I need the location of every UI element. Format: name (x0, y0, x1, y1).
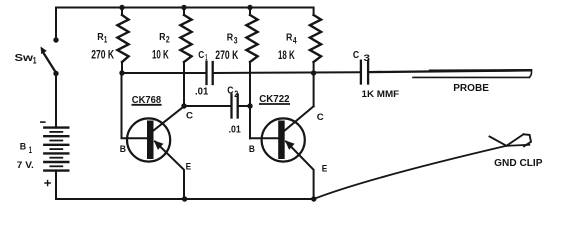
svg-text:3: 3 (364, 53, 371, 64)
svg-text:4: 4 (293, 36, 297, 46)
node: R1 bottom junction (119, 70, 124, 75)
node: Q1 collector junction (181, 103, 186, 108)
wire Q2 base lead (250, 137, 279, 139)
wire switch-to-battery lead (55, 74, 57, 128)
svg-text:1: 1 (104, 35, 107, 45)
wire battery-to-bottom-rail lead (55, 171, 57, 199)
resistor R4 (310, 15, 321, 106)
node: R2 top junction (181, 5, 186, 10)
node: Q2 base / C2 / R3 junction (247, 103, 252, 108)
node: Q1 emitter on bottom rail (182, 196, 187, 201)
svg-text:C: C (227, 85, 234, 97)
capacitor C1 (207, 62, 213, 84)
transistor Q1 CK768 (127, 106, 184, 199)
node: R3 top junction (247, 5, 252, 10)
svg-text:B: B (249, 144, 255, 155)
svg-text:E: E (322, 163, 328, 174)
svg-text:2: 2 (166, 35, 170, 45)
node: R1 top junction (119, 5, 124, 10)
battery plus sign (45, 180, 50, 185)
svg-text:C: C (198, 50, 204, 61)
resistor R1 (117, 8, 128, 74)
svg-text:3: 3 (234, 36, 238, 46)
node: switch bottom terminal (53, 71, 58, 76)
wire top rail (56, 8, 314, 42)
svg-text:GND CLIP: GND CLIP (494, 158, 543, 169)
svg-text:270 K: 270 K (91, 48, 114, 62)
wire bottom rail (56, 198, 314, 200)
svg-text:2: 2 (234, 89, 238, 99)
svg-text:.01: .01 (195, 85, 208, 97)
ground clip head (524, 134, 532, 146)
ground clip jaws (490, 134, 524, 146)
resistor R2 (180, 8, 191, 107)
svg-text:E: E (186, 161, 192, 172)
svg-text:18 K: 18 K (278, 48, 295, 62)
wire C2 to Q2 base node (239, 105, 250, 107)
node: R4 bottom / output junction (311, 70, 316, 75)
svg-text:1: 1 (33, 56, 37, 66)
svg-text:B: B (20, 142, 27, 153)
capacitor C2 (232, 95, 238, 118)
transistor Q2 CK722 (262, 106, 314, 199)
node: Q2 emitter on bottom rail (311, 196, 316, 201)
wire ground-clip lead (curved) (314, 145, 530, 199)
wire C1-to-C3 (crosses R3, joins R4 node) (214, 71, 360, 74)
svg-text:C: C (353, 50, 359, 61)
node: switch top terminal (53, 37, 58, 42)
svg-text:1: 1 (205, 53, 207, 63)
svg-text:7 V.: 7 V. (17, 160, 34, 171)
svg-text:1: 1 (29, 145, 32, 155)
svg-text:C: C (186, 111, 193, 122)
svg-text:Sw: Sw (15, 53, 34, 64)
battery B1 (44, 128, 68, 171)
wire Q1 base rail (122, 72, 205, 74)
svg-text:1K MMF: 1K MMF (362, 89, 400, 100)
svg-text:B: B (120, 144, 126, 155)
wire Q1 base drop (122, 73, 148, 138)
svg-text:270 K: 270 K (215, 48, 238, 62)
wire C3 to probe (369, 70, 531, 72)
battery minus sign (41, 121, 45, 123)
capacitor C3 (361, 61, 368, 84)
switch Sw1 (41, 47, 57, 74)
svg-text:10 K: 10 K (152, 48, 169, 62)
wire Q1 collector to C2 (184, 105, 230, 107)
svg-text:C: C (317, 112, 324, 123)
svg-text:PROBE: PROBE (453, 82, 489, 94)
resistor R3 (246, 8, 257, 139)
svg-text:.01: .01 (229, 124, 241, 136)
probe body (413, 70, 532, 77)
